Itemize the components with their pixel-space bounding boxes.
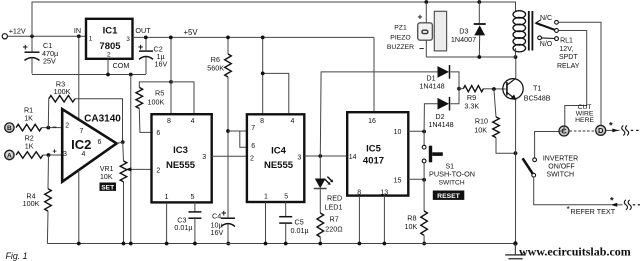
label C2 value: [154, 45, 168, 69]
svg-text:IC1: IC1: [103, 26, 119, 37]
label RESET inverted: [433, 191, 465, 200]
node diode junction: [457, 87, 461, 91]
wire T1 collector up: [515, 57, 517, 78]
svg-text:100K: 100K: [148, 98, 165, 107]
svg-text:+: +: [138, 42, 143, 52]
label PUSH-TO-ON: [429, 169, 475, 178]
wire terminal C to inverter switch: [535, 126, 564, 158]
svg-text:1: 1: [89, 36, 93, 43]
label R7: [325, 215, 343, 234]
svg-text:2: 2: [250, 155, 254, 162]
svg-text:R5: R5: [155, 88, 164, 97]
svg-text:7805: 7805: [99, 41, 121, 52]
label SET inverted: [100, 183, 117, 192]
node R9 R10 base: [492, 87, 496, 91]
node op-amp output: [121, 140, 125, 144]
svg-text:1N4148: 1N4148: [419, 82, 444, 91]
node emitter ground: [513, 241, 517, 245]
label +5V: [183, 28, 198, 37]
svg-text:10K: 10K: [474, 125, 487, 134]
label SWITCH: [439, 180, 465, 187]
svg-text:+: +: [52, 147, 57, 156]
svg-text:Fig. 1: Fig. 1: [6, 251, 28, 261]
svg-text:3: 3: [297, 154, 301, 161]
svg-text:1N4007: 1N4007: [451, 35, 476, 44]
svg-text:IC5: IC5: [366, 144, 382, 155]
label R2: [25, 134, 34, 151]
wire +5V to IC4 pins 8 4: [263, 37, 289, 114]
node collector at coil: [514, 55, 518, 59]
svg-text:RELAY: RELAY: [557, 63, 580, 70]
svg-text:1: 1: [165, 194, 169, 201]
svg-text:10K: 10K: [405, 222, 418, 231]
svg-text:6: 6: [97, 139, 101, 146]
label R10: [474, 117, 488, 135]
label RL1 12V SPDT RELAY: [557, 37, 580, 70]
label C1 value: [42, 41, 58, 66]
svg-text:10: 10: [394, 129, 402, 136]
svg-text:NE555: NE555: [166, 160, 196, 171]
label D2: [428, 112, 453, 129]
svg-text:220Ω: 220Ω: [325, 224, 343, 233]
asterisk at D: [609, 120, 613, 131]
node VR1 ground: [122, 242, 126, 246]
svg-text:8: 8: [260, 118, 264, 125]
wire buzzer to bottom line: [425, 40, 427, 57]
svg-text:5: 5: [191, 194, 195, 201]
resistor R9: [459, 86, 506, 92]
label OUT: [135, 26, 151, 35]
terminal A: [5, 150, 14, 159]
svg-text:NE555: NE555: [264, 160, 294, 171]
svg-text:0.01µ: 0.01µ: [174, 223, 192, 232]
label REFER TEXT: [567, 204, 616, 216]
capacitor C4: [221, 218, 235, 243]
node COM pin on ground line: [106, 73, 110, 77]
label PZ1 PIEZO BUZZER: [387, 25, 414, 51]
svg-text:REFER TEXT: REFER TEXT: [571, 207, 616, 216]
terminal D: [596, 125, 606, 135]
label S1: [446, 164, 455, 171]
svg-text:SWITCH: SWITCH: [546, 172, 574, 179]
svg-text:IN: IN: [74, 26, 81, 35]
node R8 at ground: [422, 242, 426, 246]
caption www.ecircuitslab.com: [519, 244, 631, 258]
wire IC5 pin 8 to ground: [358, 196, 360, 244]
wiper arrow VR1 to IC3 pin 2: [126, 167, 153, 171]
svg-text:N/O: N/O: [540, 41, 553, 48]
svg-text:+: +: [221, 208, 226, 218]
wire op-amp pin 4 to ground: [78, 170, 80, 244]
diode D3 1N4007: [474, 24, 486, 57]
svg-text:4017: 4017: [363, 155, 384, 166]
wire IC3 pin 1 to ground: [166, 202, 168, 243]
svg-text:*: *: [610, 195, 614, 206]
diode D2 1N4148: [438, 97, 450, 111]
svg-text:COM: COM: [113, 61, 130, 70]
relay core bars: [528, 11, 533, 51]
svg-text:BC548B: BC548B: [524, 93, 551, 102]
svg-text:D: D: [598, 126, 604, 135]
svg-text:2: 2: [156, 167, 160, 174]
svg-text:www.ecircuitslab.com: www.ecircuitslab.com: [519, 244, 631, 258]
caption Fig. 1: [6, 251, 28, 261]
break squiggle at refer wire: [624, 200, 640, 210]
plus sign C2: [138, 42, 143, 52]
plus sign buzzer: [418, 12, 423, 22]
capacitor C1: [25, 36, 40, 74]
svg-text:HERE: HERE: [575, 117, 594, 124]
capacitor C2: [139, 37, 153, 74]
node IC4 pin1 ground: [264, 242, 268, 246]
svg-text:0.01µ: 0.01µ: [291, 226, 309, 235]
svg-text:10K: 10K: [100, 174, 113, 181]
node C3 ground: [193, 242, 197, 246]
resistor R3 feedback: [48, 96, 122, 143]
svg-text:IC3: IC3: [173, 145, 188, 156]
label C5: [291, 217, 309, 235]
wire buzzer feed: [425, 2, 427, 23]
wire +5V to IC5 pin16: [373, 37, 375, 112]
svg-text:+12V: +12V: [9, 26, 26, 35]
label R5: [148, 88, 165, 106]
break squiggle at D: [622, 125, 639, 135]
svg-text:7: 7: [251, 125, 255, 132]
svg-text:13: 13: [380, 189, 388, 196]
wire IC5 pin 15 to reset node: [408, 178, 424, 180]
svg-text:3.3K: 3.3K: [464, 101, 479, 110]
terminal B: [5, 123, 14, 132]
svg-text:IC4: IC4: [271, 145, 287, 156]
switch inverter on/off: [523, 158, 537, 177]
resistor R6: [225, 37, 232, 218]
svg-text:7: 7: [80, 128, 84, 135]
svg-text:6: 6: [251, 143, 255, 150]
node +12V at C1: [30, 34, 34, 38]
svg-text:2: 2: [65, 123, 69, 130]
svg-text:A: A: [7, 152, 12, 159]
svg-text:N/C: N/C: [540, 15, 552, 22]
wire N/C to terminal D: [558, 22, 601, 125]
svg-text:3: 3: [63, 151, 67, 158]
svg-text:ON/OFF: ON/OFF: [548, 163, 574, 170]
plus sign noninverting input: [52, 147, 57, 156]
arrow at refer wire: [610, 203, 622, 207]
wire bottom +12V line: [426, 56, 515, 58]
label N/O: [540, 41, 553, 48]
svg-text:1K: 1K: [25, 141, 34, 150]
node pin10 D2 S1: [422, 130, 426, 134]
node C5 ground: [284, 242, 288, 246]
label N/C: [540, 15, 552, 22]
wire dashed cut section: [570, 130, 596, 132]
counter IC5 4017: [347, 112, 408, 196]
minus sign buzzer: [419, 44, 424, 54]
svg-text:+: +: [23, 42, 28, 52]
relay contact pole: [555, 29, 559, 33]
label T1: [524, 83, 551, 102]
timer IC4 NE555: [247, 114, 304, 202]
minus sign inverting input: [52, 122, 57, 131]
node R7 ground: [318, 242, 322, 246]
svg-text:CA3140: CA3140: [84, 113, 121, 124]
regulator IC1 7805: [86, 19, 133, 59]
label R9: [464, 93, 479, 110]
svg-text:VR1: VR1: [100, 166, 114, 173]
svg-text:4: 4: [82, 151, 86, 158]
node buzzer on +12V rail: [424, 0, 428, 4]
resistor R1: [16, 124, 62, 131]
terminal C: [559, 126, 569, 136]
led LED1: [314, 177, 333, 189]
wire +12V down to op-amp pin 7: [78, 36, 80, 119]
svg-text:8: 8: [357, 189, 361, 196]
svg-text:−: −: [419, 44, 424, 54]
resistor R5: [136, 82, 171, 132]
svg-text:R7: R7: [330, 215, 339, 224]
svg-text:16V: 16V: [155, 60, 168, 69]
svg-text:PIEZO: PIEZO: [390, 34, 410, 41]
relay armature lever: [536, 20, 556, 31]
label VR1: [100, 166, 114, 181]
capacitor C5: [279, 202, 292, 244]
label IC2: [71, 137, 91, 152]
svg-text:OUT: OUT: [135, 26, 151, 35]
svg-text:1N4148: 1N4148: [428, 120, 453, 129]
svg-text:PUSH-TO-ON: PUSH-TO-ON: [429, 169, 475, 178]
wire op-amp output apex: [117, 142, 123, 143]
potentiometer VR1: [120, 142, 127, 243]
label R6: [207, 55, 224, 73]
wire D3 top: [478, 2, 480, 23]
node R6 to IC4 pins 7 6: [226, 129, 230, 133]
node R6 top on +5V: [226, 36, 230, 40]
svg-text:12V,: 12V,: [559, 46, 573, 53]
wire stub after D with arrow: [606, 129, 620, 133]
svg-text:B: B: [7, 125, 12, 132]
svg-text:T1: T1: [533, 83, 541, 92]
svg-text:16: 16: [368, 118, 376, 125]
wire IC1 COM pin down: [107, 59, 109, 75]
wire IC3 pin3 to IC4 pin2: [212, 155, 247, 157]
svg-text:RL1: RL1: [560, 37, 573, 44]
wire T1 emitter down to ground: [515, 99, 517, 243]
wire R6 node to IC4 pin7 pin6 bracket: [228, 131, 247, 147]
node IC4 supply split: [261, 72, 265, 76]
label R3: [54, 79, 71, 96]
switch S1 push-to-on: [422, 132, 443, 180]
node IC3 pin1 ground: [165, 242, 169, 246]
wire IC4 pin 1 to ground: [265, 202, 267, 244]
node IN pin junction: [77, 34, 81, 38]
svg-text:14: 14: [349, 154, 357, 161]
resistor R7: [317, 189, 324, 244]
svg-text:3: 3: [126, 36, 130, 43]
node R10 to emitter line: [514, 151, 518, 155]
wire D1 D2 cathodes join: [451, 72, 459, 104]
node D3 on +12V rail: [477, 0, 481, 4]
op-amp pin labels: [63, 123, 101, 158]
svg-text:3: 3: [202, 154, 206, 161]
relay coil RL1: [513, 11, 526, 57]
svg-text:5: 5: [284, 194, 288, 201]
svg-text:+: +: [418, 12, 423, 22]
node IC3 supply: [169, 80, 173, 84]
label R1: [24, 106, 33, 123]
buzzer PZ1 piezo: [418, 11, 447, 51]
label CUT WIRE HERE: [575, 104, 594, 124]
relay contact N/C: [555, 20, 559, 24]
svg-text:+5V: +5V: [183, 28, 198, 37]
svg-text:LED1: LED1: [325, 202, 343, 211]
wire IC5 pin 13 to ground: [383, 196, 385, 244]
svg-text:−: −: [52, 122, 57, 131]
svg-text:4: 4: [291, 118, 295, 125]
svg-text:15: 15: [394, 177, 402, 184]
svg-text:SPDT: SPDT: [559, 54, 578, 61]
svg-text:1: 1: [264, 194, 268, 201]
svg-text:4: 4: [191, 118, 195, 125]
svg-text:2: 2: [107, 51, 111, 58]
wire IC4 pin3 to IC5 pin14: [304, 155, 347, 157]
label R8: [405, 214, 418, 232]
plus sign C4: [221, 208, 226, 218]
svg-text:BUZZER: BUZZER: [387, 44, 414, 51]
wire inverter switch to refer text: [534, 177, 611, 205]
svg-text:INVERTER: INVERTER: [543, 155, 578, 162]
resistor R4: [45, 155, 52, 244]
svg-text:IC2: IC2: [71, 137, 91, 152]
label RED LED1: [325, 193, 343, 211]
plus sign C1: [23, 42, 28, 52]
label INVERTER ON/OFF SWITCH: [543, 155, 578, 178]
label D3: [451, 26, 476, 44]
node ground-drop on COM line: [129, 73, 133, 77]
capacitor C3: [188, 202, 201, 243]
node R1-R3 junction: [46, 126, 50, 130]
wire COM ground line: [32, 74, 146, 76]
label C3: [174, 215, 192, 232]
svg-text:RED: RED: [327, 193, 342, 202]
label D1: [419, 73, 444, 90]
svg-text:C4: C4: [212, 211, 221, 220]
svg-text:RESET: RESET: [437, 193, 461, 200]
ground symbol: [505, 244, 525, 259]
node opamp pin4 ground: [77, 242, 81, 246]
node R2-R4 junction: [47, 153, 51, 157]
svg-text:560K: 560K: [207, 64, 224, 73]
wire D2 anode from pin10 node: [424, 104, 437, 132]
wire IC5 pin 10 to switch node: [408, 130, 424, 132]
op-amp U IC2 CA3140 triangle: [62, 109, 116, 182]
node pin15 R8 S1: [422, 178, 426, 182]
node C4 at ground: [226, 242, 230, 246]
node C2 top: [144, 36, 148, 40]
wire +5V to IC3 pins 8 4: [171, 37, 194, 114]
timer IC3 NE555: [152, 114, 212, 202]
label COM: [113, 61, 130, 70]
svg-text:100K: 100K: [23, 199, 40, 208]
wire cathode node vertical: [458, 72, 460, 104]
label CA3140: [84, 113, 121, 124]
wire LED feed: [319, 156, 321, 179]
svg-text:100K: 100K: [54, 87, 71, 96]
label IN: [74, 26, 81, 35]
node IC5 pin8 ground: [358, 242, 362, 246]
label C4: [211, 211, 224, 237]
svg-text:*: *: [609, 120, 613, 131]
node IC5 pin13 ground: [383, 242, 387, 246]
relay contact N/O: [538, 36, 559, 41]
wire IC1 OUT to +5V rail: [133, 36, 375, 38]
transistor T1 BC548B: [503, 78, 523, 100]
node +5V at x262: [261, 36, 265, 40]
wire +12V input to IC1 IN: [7, 35, 86, 37]
node IC4 output: [318, 154, 322, 158]
node +5V at x171: [169, 36, 173, 40]
resistor R2: [16, 152, 62, 159]
resistor R8: [421, 180, 428, 244]
diode D1 1N4148: [438, 65, 450, 79]
node com-line ground: [129, 242, 133, 246]
terminal +12V input: [2, 26, 26, 39]
wire ground bus: [47, 243, 515, 245]
wire ground drop to bottom bus: [130, 75, 132, 244]
svg-text:R10: R10: [475, 117, 488, 126]
svg-text:SET: SET: [101, 184, 114, 191]
wire IC4 output up to D1: [320, 72, 437, 156]
asterisk at refer wire: [610, 195, 614, 206]
wire top +12V rail: [32, 2, 516, 36]
label R4: [23, 191, 40, 208]
svg-text:6: 6: [156, 130, 160, 137]
svg-text:25V: 25V: [43, 57, 56, 66]
wire pole to terminal C: [558, 31, 586, 127]
svg-text:8: 8: [167, 118, 171, 125]
svg-text:1K: 1K: [24, 114, 33, 123]
node D3 bottom: [477, 55, 481, 59]
svg-text:PZ1: PZ1: [394, 25, 407, 32]
resistor R10: [493, 89, 516, 153]
svg-text:16V: 16V: [211, 228, 224, 237]
svg-text:SWITCH: SWITCH: [439, 180, 465, 187]
